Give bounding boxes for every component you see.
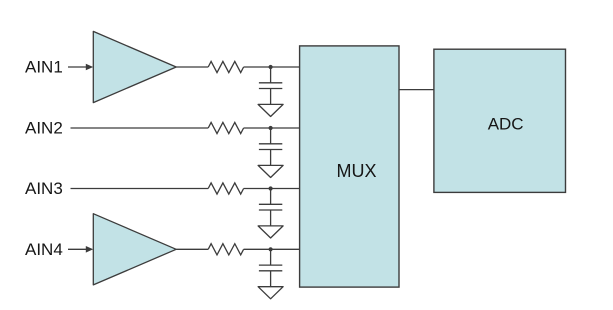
junction node 3	[269, 186, 273, 190]
wire AIN3 to R3	[71, 188, 209, 190]
resistor R3	[208, 183, 243, 194]
svg-text:AIN2: AIN2	[25, 119, 63, 138]
wire C3 to ground	[270, 210, 272, 226]
wire A2 output to R4	[176, 248, 208, 250]
resistor R4	[208, 244, 243, 255]
wire R2 to MUX pin	[244, 127, 300, 129]
wire node 3 to C3	[270, 189, 272, 205]
svg-text:AIN4: AIN4	[25, 240, 63, 259]
wire R3 to MUX pin	[244, 188, 300, 190]
node AIN1	[25, 58, 63, 77]
ground 2	[258, 165, 283, 177]
wire node 4 to C4	[270, 249, 272, 265]
svg-text:ADC: ADC	[488, 114, 524, 133]
wire MUX output to ADC	[399, 89, 434, 91]
ground 4	[258, 287, 283, 299]
wire A1 output to R1	[176, 66, 208, 68]
wire R4 to MUX pin	[244, 248, 300, 250]
wire node 2 to C2	[270, 128, 272, 144]
wire C1 to ground	[270, 89, 272, 105]
svg-text:AIN3: AIN3	[25, 179, 63, 198]
junction node 1	[269, 65, 273, 69]
node AIN4	[25, 240, 63, 259]
node AIN2	[25, 119, 63, 138]
ground 3	[258, 226, 283, 238]
ADC block U2	[434, 49, 566, 192]
resistor R1	[208, 61, 243, 72]
wire C2 to ground	[270, 150, 272, 166]
MUX block U1	[300, 46, 399, 287]
wire node 1 to C1	[270, 67, 272, 83]
op-amp buffer A1	[93, 31, 176, 102]
wire R1 to MUX pin	[244, 66, 300, 68]
wire C4 to ground	[270, 271, 272, 287]
capacitor C2	[259, 144, 282, 150]
node AIN3	[25, 179, 63, 198]
capacitor C3	[259, 204, 282, 210]
capacitor C1	[259, 83, 282, 89]
wire AIN1 input arrow	[68, 64, 93, 71]
resistor R2	[208, 122, 243, 133]
wire AIN2 to R2	[71, 127, 209, 129]
op-amp buffer A2	[93, 214, 176, 285]
svg-text:AIN1: AIN1	[25, 58, 63, 77]
junction node 4	[269, 247, 273, 251]
junction node 2	[269, 126, 273, 130]
svg-text:MUX: MUX	[337, 161, 377, 181]
ground 1	[258, 104, 283, 116]
wire AIN4 input arrow	[68, 246, 93, 253]
capacitor C4	[259, 265, 282, 271]
